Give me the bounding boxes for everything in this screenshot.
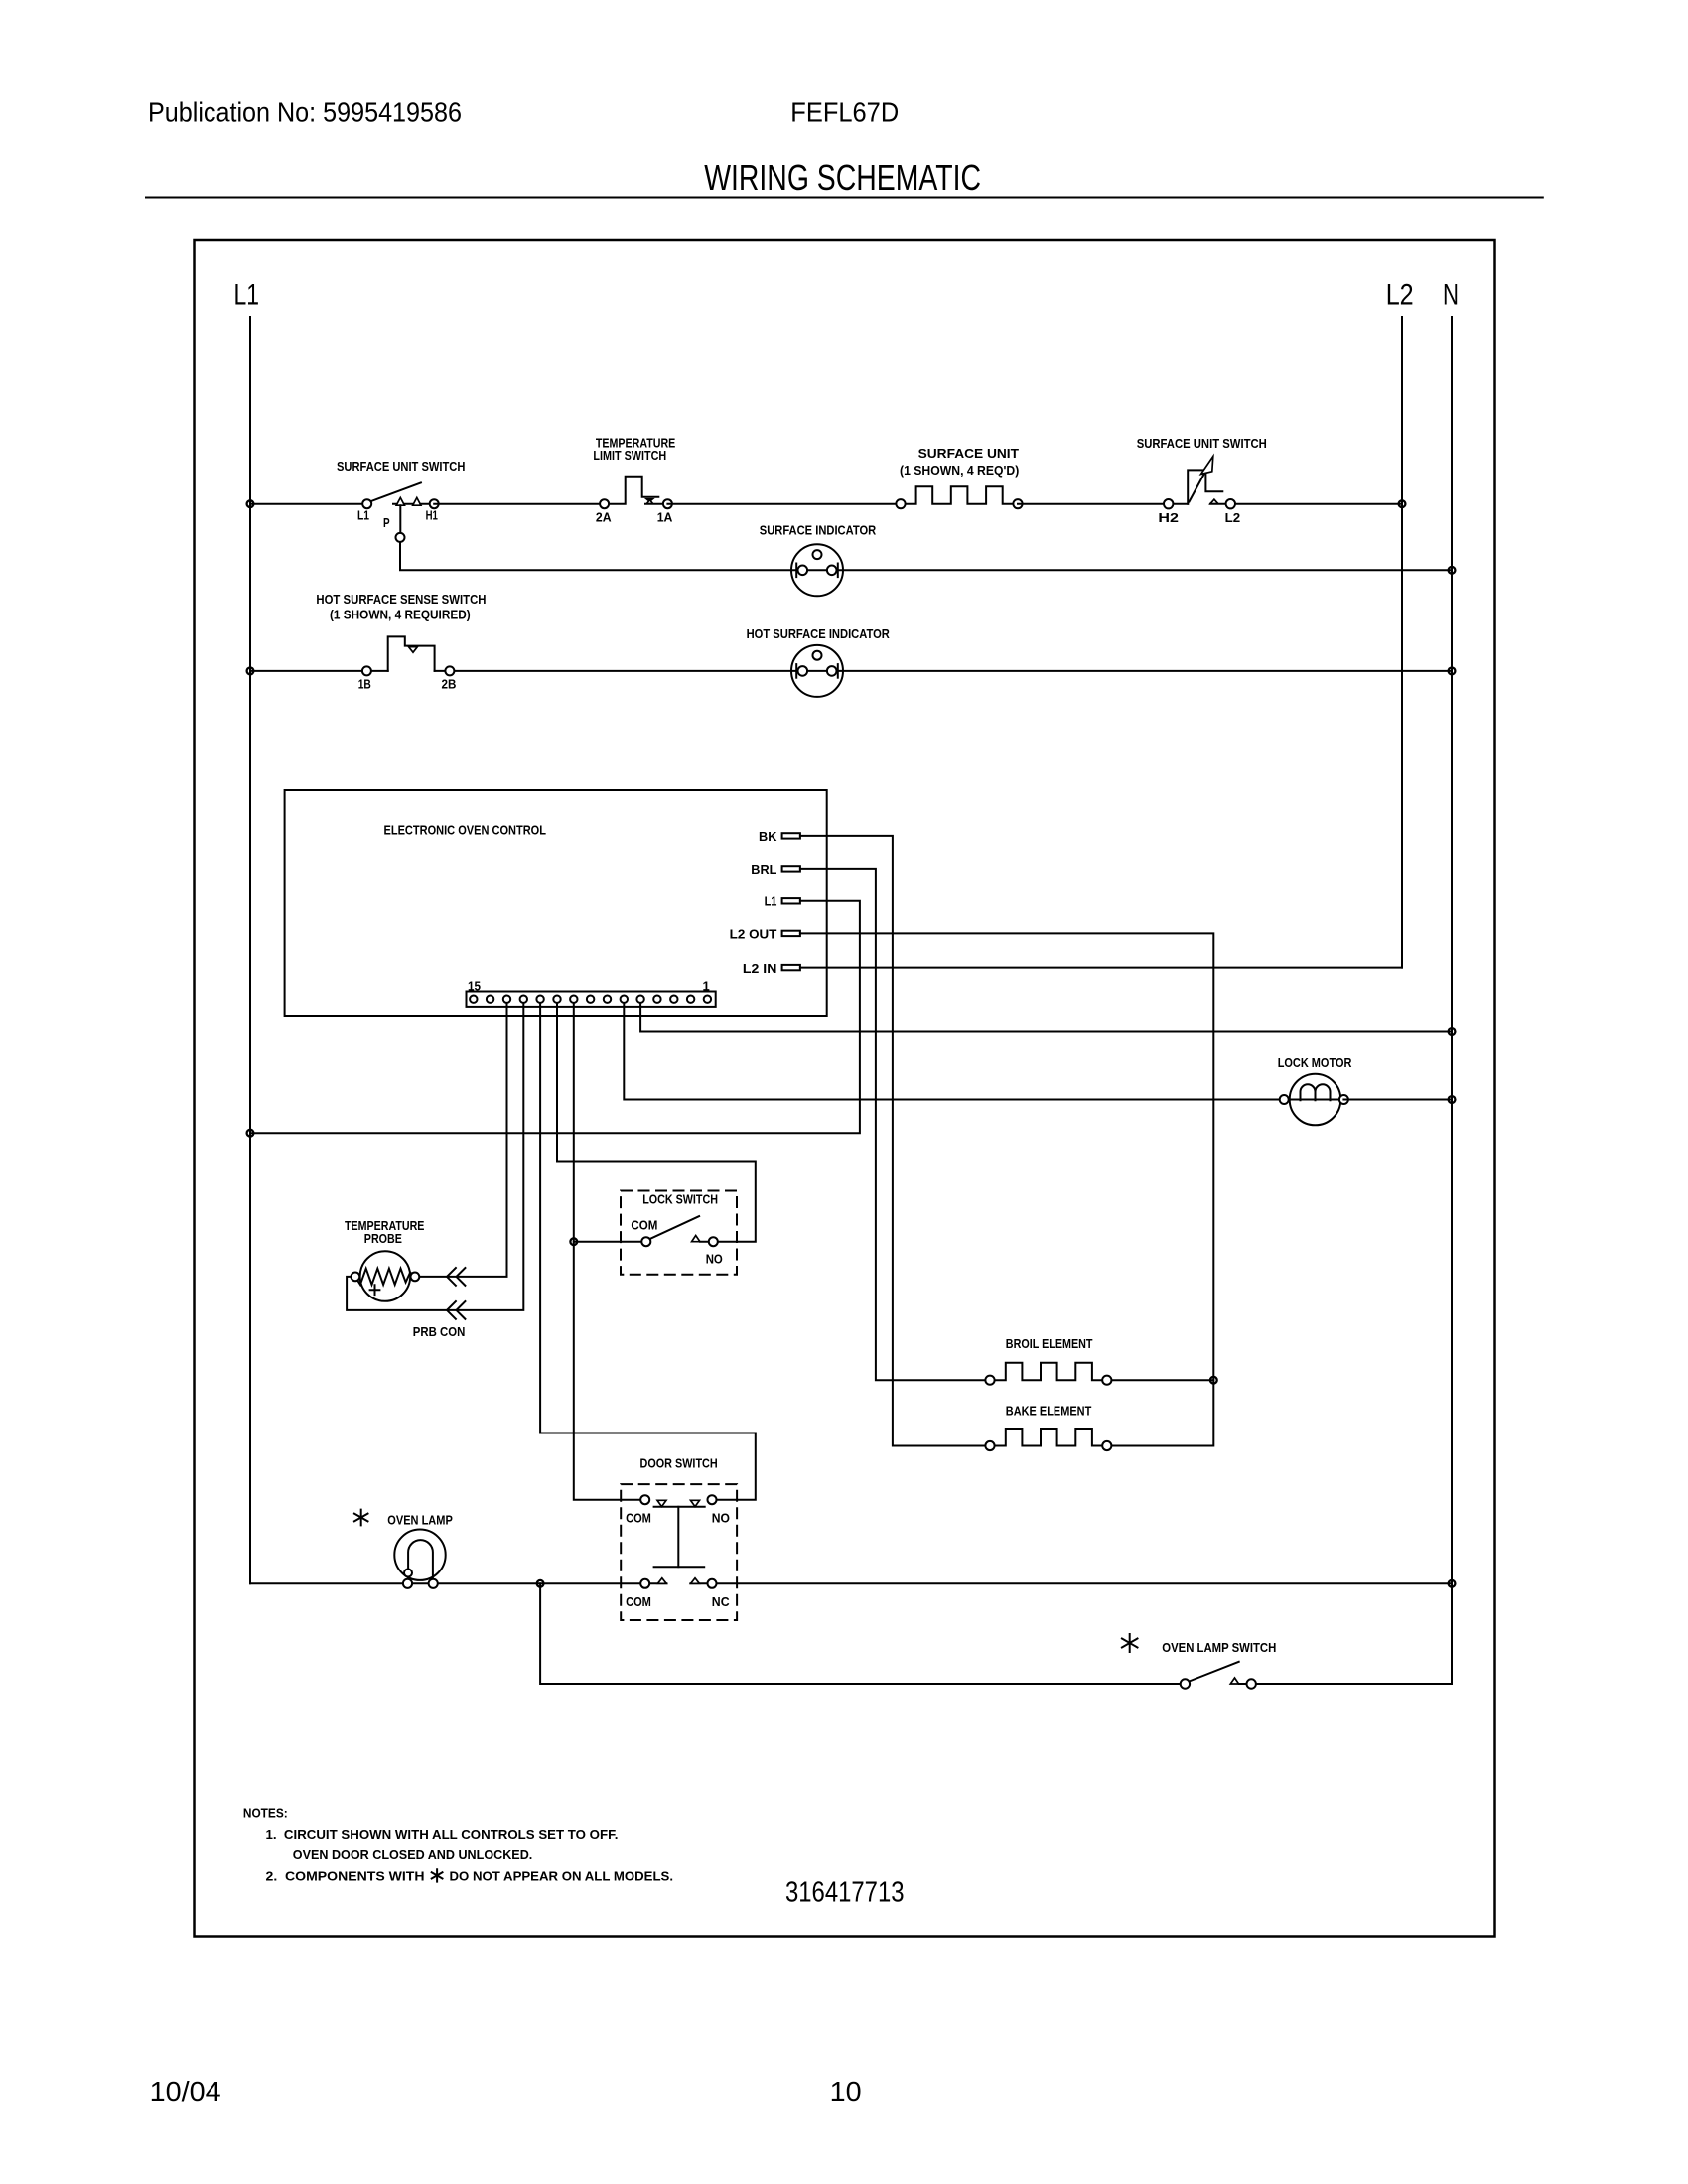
- temperature probe resistor zigzag: [355, 1269, 415, 1285]
- svg-text:2. COMPONENTS WITH: 2. COMPONENTS WITH: [266, 1869, 425, 1884]
- svg-text:15: 15: [468, 978, 481, 993]
- asterisk for oven lamp switch: [1122, 1634, 1138, 1652]
- door switch dashed enclosure: [621, 1484, 737, 1620]
- wire: row 1 L2 contact to L2 bus: [1210, 503, 1402, 505]
- bake element right terminal: [1102, 1441, 1111, 1450]
- svg-text:10/04: 10/04: [150, 2076, 221, 2107]
- svg-text:1: 1: [703, 978, 710, 993]
- surface unit switch (right) fixed contact triangle: [1210, 499, 1218, 504]
- temperature probe thermistor plus mark: [370, 1285, 380, 1295]
- lock motor winding symbol: [1301, 1084, 1331, 1100]
- temperature limit switch fixed contact triangle: [646, 500, 652, 504]
- surface indicator internal wire: [792, 569, 843, 571]
- door switch upper NO terminal: [708, 1495, 717, 1504]
- temperature probe right terminal: [411, 1273, 420, 1282]
- wire: N bus vertical down to oven lamp switch row: [1451, 317, 1453, 1684]
- wire: row 2 from L1 bus to 1B: [250, 670, 388, 672]
- svg-text:BRL: BRL: [751, 862, 776, 877]
- wire: strip pin 12 to temperature probe return (lower): [347, 1003, 523, 1310]
- svg-text:N: N: [1443, 279, 1459, 312]
- terminal H2: [1164, 499, 1173, 508]
- schematic border frame: [195, 240, 1495, 1937]
- wire: L2 bus vertical down to L2 IN row: [1401, 317, 1403, 968]
- junction pin 5 wire on N bus: [1449, 1028, 1456, 1035]
- oven lamp left terminal: [403, 1579, 412, 1588]
- svg-text:(1 SHOWN, 4 REQUIRED): (1 SHOWN, 4 REQUIRED): [330, 608, 471, 622]
- svg-text:LOCK SWITCH: LOCK SWITCH: [642, 1192, 718, 1207]
- door switch lower contact triangle right: [691, 1578, 700, 1584]
- wire: row 1 H1 to temperature limit switch 2A: [434, 503, 604, 505]
- junction row 2 on N bus: [1449, 668, 1456, 675]
- pin BK connector lug: [782, 833, 800, 838]
- svg-text:ELECTRONIC OVEN CONTROL: ELECTRONIC OVEN CONTROL: [384, 823, 547, 838]
- junction on L1 bus at row 2: [247, 668, 254, 675]
- junction lock motor row on N bus: [1449, 1096, 1456, 1103]
- terminal 1A: [663, 499, 672, 508]
- svg-text:DO NOT APPEAR ON ALL MODELS.: DO NOT APPEAR ON ALL MODELS.: [450, 1869, 674, 1884]
- lock switch fixed contact triangle: [692, 1236, 700, 1242]
- hot surface indicator internal wire: [792, 670, 843, 672]
- svg-text:H2: H2: [1158, 510, 1179, 525]
- svg-text:SURFACE INDICATOR: SURFACE INDICATOR: [760, 522, 877, 537]
- svg-text:2B: 2B: [442, 676, 457, 691]
- svg-text:BK: BK: [759, 829, 777, 844]
- junction door NC row on N bus: [1449, 1580, 1456, 1587]
- svg-text:L2: L2: [1386, 279, 1414, 312]
- svg-text:L2: L2: [1225, 510, 1241, 525]
- junction L2 OUT riser at broil element row: [1210, 1377, 1217, 1384]
- door switch upper contact triangle right: [691, 1500, 700, 1506]
- svg-text:WIRING SCHEMATIC: WIRING SCHEMATIC: [704, 157, 981, 198]
- wire: broil element right lead to L2 OUT riser: [1107, 1379, 1214, 1381]
- svg-text:H1: H1: [426, 508, 438, 523]
- hot surface indicator lamp body: [791, 645, 843, 697]
- wire: L1 pin down to L1 bus: [250, 901, 860, 1133]
- door switch push rod: [677, 1507, 679, 1567]
- lock switch COM terminal: [641, 1237, 650, 1246]
- hot surface indicator top pin circle: [813, 651, 822, 660]
- lock switch blade: [650, 1216, 700, 1239]
- terminal P of surface unit switch: [396, 533, 405, 542]
- svg-text:SURFACE UNIT SWITCH: SURFACE UNIT SWITCH: [1137, 436, 1267, 451]
- hot surface sense switch bump: [388, 636, 435, 671]
- probe connector chevrons upper: [447, 1268, 465, 1286]
- surface unit switch (right) riser and ledge: [1188, 470, 1222, 503]
- svg-text:1. CIRCUIT SHOWN WITH ALL CON: 1. CIRCUIT SHOWN WITH ALL CONTROLS SET T…: [266, 1827, 619, 1842]
- wire: BK pin to bake element: [800, 836, 986, 1446]
- hot surface sense switch contact triangle: [409, 647, 418, 653]
- terminal 2B: [445, 666, 454, 675]
- svg-text:HOT SURFACE SENSE SWITCH: HOT SURFACE SENSE SWITCH: [316, 592, 486, 607]
- wire: strip pin 10 to lock switch NO: [557, 1003, 756, 1242]
- svg-text:LIMIT SWITCH: LIMIT SWITCH: [593, 448, 666, 463]
- wire: lock switch NO contact stub: [700, 1241, 718, 1243]
- lock motor right terminal: [1339, 1095, 1348, 1104]
- svg-text:L2 OUT: L2 OUT: [730, 927, 777, 942]
- strip pin circles 15..1: [470, 996, 477, 1003]
- wire: row 1 limit switch contact to 1A: [645, 503, 667, 505]
- asterisk for oven lamp: [354, 1510, 368, 1526]
- door switch upper bridge bar: [654, 1506, 705, 1508]
- wire: strip pin 13 to temperature probe (upper): [419, 1003, 506, 1277]
- svg-text:Publication No: 5995419586: Publication No: 5995419586: [148, 97, 462, 128]
- pin L1 connector lug: [782, 898, 800, 903]
- wire: strip pin 5 to N bus: [640, 1003, 1452, 1032]
- svg-text:OVEN LAMP SWITCH: OVEN LAMP SWITCH: [1162, 1640, 1276, 1655]
- svg-text:L1: L1: [765, 894, 777, 909]
- svg-text:PROBE: PROBE: [364, 1231, 402, 1246]
- junction L1 pin wire on L1 bus: [247, 1130, 254, 1137]
- svg-text:L1: L1: [234, 279, 260, 312]
- bake element left terminal: [985, 1441, 994, 1450]
- lock motor internal wire: [1291, 1099, 1340, 1101]
- junction surface indicator row on N bus: [1449, 567, 1456, 574]
- svg-text:NO: NO: [706, 1252, 723, 1267]
- door switch lower bridge bar: [654, 1566, 705, 1568]
- temperature probe body: [360, 1251, 411, 1301]
- EOC terminal strip: [467, 992, 716, 1007]
- wire: row 1 from L1 bus to surface unit switch terminal L1: [250, 503, 367, 505]
- pin L2 IN connector lug: [782, 965, 800, 970]
- door switch upper COM terminal: [640, 1495, 649, 1504]
- broil element square wave: [995, 1363, 1103, 1381]
- surface unit element right terminal: [1013, 499, 1022, 508]
- door switch upper contact triangle left: [657, 1500, 666, 1506]
- wire: L2 IN pin to L2 bus: [800, 967, 1402, 969]
- wire: P branch down from pivot to P terminal and surface indicator row: [400, 505, 1452, 570]
- oven lamp right terminal: [429, 1579, 438, 1588]
- svg-text:LOCK MOTOR: LOCK MOTOR: [1278, 1055, 1352, 1070]
- svg-text:BROIL ELEMENT: BROIL ELEMENT: [1006, 1336, 1093, 1351]
- wire: row 1 surface unit element to H2: [1018, 503, 1188, 505]
- svg-text:PRB CON: PRB CON: [413, 1324, 466, 1339]
- svg-text:DOOR SWITCH: DOOR SWITCH: [640, 1455, 718, 1470]
- wire: strip pin 6 to lock motor: [624, 1003, 1279, 1100]
- wire: oven lamp row from door switch lower right contact to N bus: [690, 1582, 1452, 1584]
- svg-text:1B: 1B: [358, 676, 371, 691]
- title rule: [146, 197, 1543, 199]
- wire: lock motor to N bus: [1343, 1099, 1452, 1101]
- surface unit switch pivot triangle H1: [413, 497, 421, 505]
- temperature limit switch moving contact (filled): [644, 498, 655, 503]
- svg-text:NO: NO: [712, 1510, 730, 1525]
- wire: L2 OUT pin to element commons: [800, 933, 1213, 1445]
- note 2 asterisk: [432, 1869, 443, 1881]
- svg-text:P: P: [383, 515, 390, 530]
- svg-text:COM: COM: [631, 1217, 657, 1232]
- surface unit switch pivot triangle P: [396, 497, 404, 505]
- junction oven lamp row branch to lamp switch: [537, 1580, 544, 1587]
- oven lamp filament loop: [408, 1540, 433, 1581]
- svg-text:2A: 2A: [596, 509, 612, 524]
- wire: L1 bus vertical with corner into oven lamp row: [249, 317, 251, 1583]
- door switch lower contact triangle left: [657, 1578, 666, 1584]
- wire: branch from oven lamp row down to oven lamp switch: [540, 1583, 1185, 1684]
- wire: oven lamp switch to N bus: [1239, 1683, 1452, 1685]
- surface unit heating element (square wave): [906, 486, 1014, 504]
- surface indicator lamp body: [791, 544, 843, 596]
- svg-text:SURFACE UNIT SWITCH: SURFACE UNIT SWITCH: [337, 459, 465, 474]
- surface indicator right contact: [837, 564, 839, 578]
- svg-text:OVEN LAMP: OVEN LAMP: [387, 1513, 453, 1528]
- oven lamp switch right terminal: [1247, 1679, 1256, 1688]
- surface unit element left terminal: [896, 499, 905, 508]
- door switch lower COM terminal: [640, 1579, 649, 1588]
- wire: strip pin 9 to lock switch COM and door switch COM: [574, 1003, 640, 1500]
- svg-text:316417713: 316417713: [785, 1877, 905, 1909]
- svg-text:BAKE ELEMENT: BAKE ELEMENT: [1006, 1404, 1092, 1419]
- svg-text:COM: COM: [626, 1594, 651, 1609]
- wire: row 2 from 2B to hot surface indicator and N bus: [435, 670, 1452, 672]
- lock switch NO terminal: [709, 1237, 718, 1246]
- svg-text:L2 IN: L2 IN: [743, 961, 777, 976]
- svg-text:1A: 1A: [657, 509, 673, 524]
- oven lamp body: [394, 1530, 445, 1580]
- wire: BRL pin to broil element: [800, 869, 986, 1380]
- svg-text:FEFL67D: FEFL67D: [790, 97, 899, 128]
- oven lamp switch blade: [1190, 1662, 1239, 1682]
- terminal L2: [1226, 499, 1235, 508]
- bake element square wave: [995, 1429, 1103, 1446]
- svg-text:(1 SHOWN, 4 REQ'D): (1 SHOWN, 4 REQ'D): [900, 463, 1019, 478]
- broil element right terminal: [1102, 1376, 1111, 1385]
- oven lamp switch fixed contact triangle: [1230, 1678, 1238, 1684]
- wire: lock switch COM row from pin 9 riser: [574, 1241, 642, 1243]
- probe connector chevrons lower: [447, 1301, 465, 1319]
- svg-text:10: 10: [830, 2076, 862, 2107]
- electronic oven control box: [285, 790, 827, 1016]
- terminal 2A: [600, 499, 609, 508]
- pin BRL connector lug: [782, 866, 800, 871]
- svg-text:COM: COM: [626, 1510, 651, 1525]
- temperature probe left terminal: [352, 1273, 360, 1282]
- surface indicator top pin circle: [813, 550, 822, 559]
- wire: row 1 fixed contact segment to H1: [393, 503, 434, 505]
- hot surface indicator right contact: [837, 664, 839, 678]
- svg-text:L1: L1: [357, 508, 369, 523]
- junction on pin 9 riser at lock switch row: [570, 1238, 577, 1245]
- surface indicator left contact: [795, 564, 797, 578]
- svg-text:SURFACE UNIT: SURFACE UNIT: [918, 446, 1019, 461]
- pin L2 OUT connector lug: [782, 931, 800, 936]
- wire: strip pin 11 to door switch NO: [540, 1003, 756, 1500]
- junction row 1 on L2 bus: [1399, 500, 1406, 507]
- svg-text:NOTES:: NOTES:: [243, 1806, 288, 1821]
- svg-text:HOT SURFACE INDICATOR: HOT SURFACE INDICATOR: [747, 626, 891, 641]
- door switch lower NC terminal: [708, 1579, 717, 1588]
- hot surface indicator left contact: [795, 664, 797, 678]
- junction on L1 bus at row 1: [247, 500, 254, 507]
- temperature limit switch raised bump: [609, 477, 658, 504]
- broil element left terminal: [985, 1376, 994, 1385]
- lock motor left terminal: [1280, 1095, 1289, 1104]
- terminal H1 of surface unit switch: [430, 499, 439, 508]
- svg-text:OVEN DOOR CLOSED AND UNLOCKED.: OVEN DOOR CLOSED AND UNLOCKED.: [293, 1847, 533, 1862]
- wire: oven lamp row from L1 bus to door switch lower left contact: [250, 1582, 666, 1584]
- terminal L1 of surface unit switch: [362, 499, 371, 508]
- surface unit switch (right) blade: [1190, 466, 1209, 502]
- wire: row 1 from 1A to surface unit element: [667, 503, 901, 505]
- surface unit switch (left) blade: [370, 482, 421, 501]
- terminal 1B: [362, 666, 371, 675]
- oven lamp switch left terminal: [1181, 1679, 1190, 1688]
- surface unit switch (right) arrow head: [1201, 457, 1213, 475]
- lock motor body: [1290, 1074, 1341, 1126]
- svg-text:NC: NC: [712, 1594, 730, 1609]
- lock switch dashed enclosure: [621, 1191, 737, 1275]
- oven lamp small pin circle: [404, 1570, 412, 1577]
